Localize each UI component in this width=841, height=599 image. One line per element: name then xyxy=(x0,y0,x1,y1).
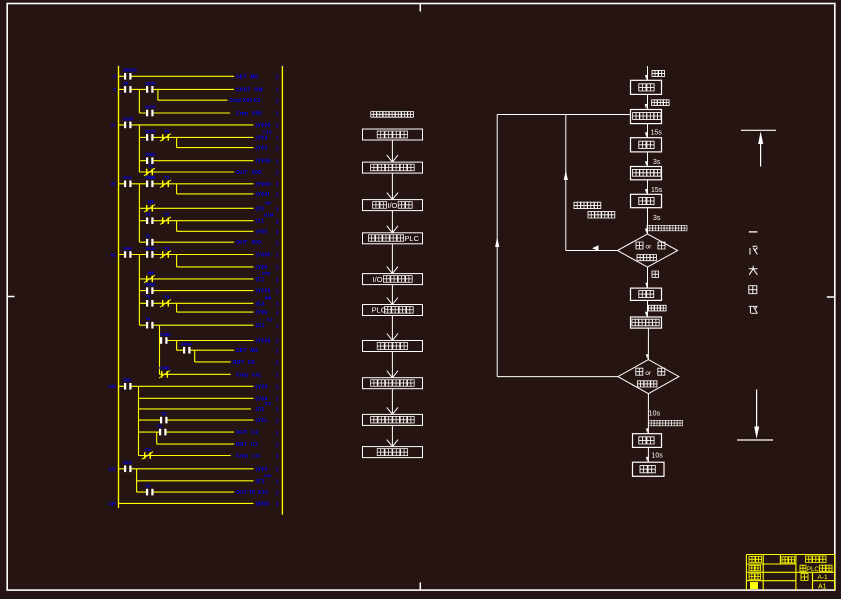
svg-text:): ) xyxy=(276,240,278,246)
wire to rinse xyxy=(647,300,649,317)
ladder right power rail xyxy=(281,66,283,515)
svg-text:(Y1: (Y1 xyxy=(256,219,265,225)
contact X041 xyxy=(148,253,152,256)
label forward reverse wash xyxy=(574,202,601,208)
flow arrow into process PLC program design xyxy=(391,285,393,305)
svg-text:(Y0L: (Y0L xyxy=(256,418,268,424)
flow arrow into process select PLC xyxy=(391,211,393,233)
svg-text:): ) xyxy=(276,397,278,403)
svg-text:S24: S24 xyxy=(123,460,132,465)
branch wire Y06 xyxy=(176,303,178,312)
contact M8002 xyxy=(126,75,130,78)
process requirement analysis xyxy=(363,162,423,173)
svg-text:S65: S65 xyxy=(123,378,132,383)
sub-rung wire T1 xyxy=(139,171,234,173)
ladder left power rail xyxy=(118,66,120,508)
svg-text:3s: 3s xyxy=(653,215,661,222)
sub-rung wire C3 xyxy=(137,480,254,482)
svg-text:(Y05: (Y05 xyxy=(256,229,268,235)
decision 1 three washes done xyxy=(617,234,677,267)
svg-text:(C4: (C4 xyxy=(256,301,265,307)
sub branch rail xyxy=(159,325,161,374)
svg-text:): ) xyxy=(276,277,278,283)
sub-rung wire X083 xyxy=(139,160,253,162)
rung 7 branch rail xyxy=(136,469,138,492)
svg-text:15s: 15s xyxy=(651,130,663,137)
process stop machine xyxy=(633,462,665,476)
contact T3 xyxy=(148,219,152,222)
svg-text:3s: 3s xyxy=(653,159,661,166)
svg-text:SET M0: SET M0 xyxy=(236,74,258,80)
process wash reverse xyxy=(631,167,662,180)
process select PLC xyxy=(363,233,423,244)
wire decision1 to drain xyxy=(647,267,649,288)
contact X085 xyxy=(148,182,152,185)
sub-rung wire X002 xyxy=(139,290,253,292)
svg-text:RST C0: RST C0 xyxy=(233,360,255,366)
svg-text:): ) xyxy=(276,407,278,413)
svg-text:): ) xyxy=(276,123,278,129)
svg-text:105: 105 xyxy=(108,384,116,389)
branch wire Y06 xyxy=(176,255,178,267)
label not three times xyxy=(588,212,615,218)
rung 2 branch wire b xyxy=(138,89,140,113)
svg-text:C080: C080 xyxy=(160,332,171,337)
svg-text:17: 17 xyxy=(111,123,117,128)
svg-text:): ) xyxy=(276,339,278,345)
svg-text:SA1: SA1 xyxy=(123,175,132,180)
svg-text:C2: C2 xyxy=(145,447,151,452)
svg-text:10s: 10s xyxy=(652,453,664,460)
rung 8 wire END xyxy=(119,502,254,504)
contact X250 xyxy=(126,123,130,126)
rung 1 wire xyxy=(119,75,235,77)
rung 4 branch rail xyxy=(138,184,140,242)
svg-text:X0: X0 xyxy=(123,81,129,86)
contact M0 yellow xyxy=(146,205,147,212)
svg-text:(Y30: (Y30 xyxy=(256,384,268,390)
dimension top tick xyxy=(741,129,776,131)
timer contact T1 xyxy=(146,169,147,176)
svg-text:or: or xyxy=(645,370,652,377)
contact X0 xyxy=(126,88,130,91)
decision 2 rinse three times xyxy=(618,360,679,394)
branch wire RST C0 xyxy=(194,350,196,362)
label low water level xyxy=(649,305,667,311)
svg-text:): ) xyxy=(276,430,278,436)
svg-text:Cmp X00 K2: Cmp X00 K2 xyxy=(230,98,261,104)
sub-rung wire C080 yellow xyxy=(160,373,231,375)
sub-rung wire C1 xyxy=(139,431,235,433)
svg-text:): ) xyxy=(276,182,278,188)
loop wire decision2 big cycle xyxy=(497,376,618,378)
svg-text:X070: X070 xyxy=(145,104,156,109)
branch wire RST C1 xyxy=(156,432,158,444)
sub-rung wire M0 xyxy=(139,278,253,280)
rung 3 wire xyxy=(119,124,254,126)
wire to wash reverse xyxy=(647,152,649,167)
rung 6 branch rail xyxy=(138,386,140,455)
sub-rung wire Y06 xyxy=(139,397,254,399)
contact X000 xyxy=(148,88,152,91)
timer contact T2 xyxy=(162,217,163,224)
svg-text:(Y005: (Y005 xyxy=(256,289,271,295)
process IO address assign xyxy=(363,274,423,285)
svg-text:(C1: (C1 xyxy=(256,277,265,283)
svg-text:T6: T6 xyxy=(145,484,151,489)
svg-text:25: 25 xyxy=(111,182,117,187)
svg-text:OUT T6 K10: OUT T6 K10 xyxy=(236,490,268,496)
contact T6 xyxy=(148,491,152,494)
contact X002 xyxy=(148,289,152,292)
flow arrow into process requirement analysis xyxy=(391,140,393,162)
label full water level xyxy=(652,100,670,106)
title block cell check xyxy=(749,565,761,571)
timer contact T1 xyxy=(162,181,163,188)
title block cell draw xyxy=(749,556,762,562)
sub-rung wire T5 xyxy=(139,419,254,421)
sub-rung wire T3 T4 xyxy=(139,302,253,304)
svg-text:X070: X070 xyxy=(145,129,156,134)
wire decision2 to alarm xyxy=(647,394,649,434)
dimension bottom arrow xyxy=(756,390,758,428)
contact S24 xyxy=(126,467,130,470)
contact SA1 xyxy=(126,182,130,185)
svg-text:T1: T1 xyxy=(164,175,170,180)
right centering mark xyxy=(827,296,835,298)
contact X083 xyxy=(148,159,152,162)
title text PLC control xyxy=(800,565,806,571)
svg-text:): ) xyxy=(276,192,278,198)
svg-text:): ) xyxy=(276,310,278,316)
wire start to fill water xyxy=(647,66,649,80)
sub-rung wire M0 xyxy=(139,207,253,209)
svg-text:): ) xyxy=(276,136,278,142)
svg-text:): ) xyxy=(276,418,278,424)
branch wire Y05 xyxy=(176,137,178,147)
label one big cycle vertical xyxy=(749,231,758,233)
process wash forward xyxy=(631,110,662,124)
svg-text:I/O: I/O xyxy=(373,275,383,284)
svg-text:C1: C1 xyxy=(157,424,163,429)
svg-text:X085: X085 xyxy=(145,175,156,180)
svg-text:or: or xyxy=(646,244,653,251)
title block cell trace xyxy=(782,557,795,563)
svg-text:X083: X083 xyxy=(145,152,156,157)
svg-text:CPST RM: CPST RM xyxy=(236,87,263,93)
svg-text:C00: C00 xyxy=(262,271,271,276)
svg-text:A-1: A-1 xyxy=(818,574,829,581)
timer contact T0 xyxy=(162,134,163,141)
label wash cycle reaches three xyxy=(647,225,687,231)
branch wire to X064 xyxy=(176,341,178,351)
svg-text:Cmp xxL: Cmp xxL xyxy=(236,372,262,378)
contact C2 yellow xyxy=(144,452,145,459)
svg-text:T5: T5 xyxy=(161,412,167,417)
svg-text:SA0: SA0 xyxy=(123,246,132,251)
svg-text:(Y04l: (Y04l xyxy=(256,192,270,198)
svg-text:(C3: (C3 xyxy=(256,479,265,485)
arrow left on decision1 branch xyxy=(592,245,599,251)
svg-text:T3: T3 xyxy=(145,295,151,300)
rung 3 branch rail xyxy=(138,125,140,172)
svg-text:121: 121 xyxy=(108,467,116,472)
svg-text:T3: T3 xyxy=(164,246,170,251)
svg-text:OUT X00: OUT X00 xyxy=(236,240,261,246)
svg-text:): ) xyxy=(276,373,278,379)
svg-text:(Y005: (Y005 xyxy=(256,339,271,345)
svg-text:(C0: (C0 xyxy=(256,206,265,212)
rung 2 branch wire a xyxy=(157,89,159,100)
wire to pause 2 xyxy=(647,180,649,195)
title block grid xyxy=(746,554,834,556)
rung 5 branch rail xyxy=(138,255,140,326)
sub-rung wire T0 xyxy=(139,136,253,138)
svg-text:): ) xyxy=(276,348,278,354)
timer contact T3 xyxy=(162,251,163,258)
svg-text:Cmp X00: Cmp X00 xyxy=(236,111,262,117)
svg-text:M0: M0 xyxy=(148,200,155,205)
svg-text:): ) xyxy=(276,75,278,81)
svg-text:10s: 10s xyxy=(649,409,661,418)
svg-text:K3: K3 xyxy=(265,401,271,406)
svg-text:SET M5: SET M5 xyxy=(236,348,258,354)
svg-text:): ) xyxy=(276,170,278,176)
process simulation debug xyxy=(363,341,423,352)
contact T5 xyxy=(162,419,166,422)
svg-text:(Y005: (Y005 xyxy=(256,159,271,165)
svg-text:M0: M0 xyxy=(148,270,155,275)
svg-text:K1M: K1M xyxy=(264,213,274,218)
svg-text:Cmp cxl: Cmp cxl xyxy=(236,454,260,460)
svg-text:(Y05: (Y05 xyxy=(256,146,268,152)
svg-text:140: 140 xyxy=(108,501,116,506)
svg-text:PLC: PLC xyxy=(807,567,819,573)
svg-text:OUT C2: OUT C2 xyxy=(236,430,259,436)
svg-text:OUT X00: OUT X00 xyxy=(236,170,261,176)
process pause 1 xyxy=(631,138,662,152)
wire to pause 1 xyxy=(647,124,649,138)
svg-text:): ) xyxy=(276,98,278,104)
title block cell scale xyxy=(801,574,808,581)
bottom centering mark xyxy=(419,583,421,590)
process pause 2 xyxy=(631,194,662,207)
branch wire Y04l xyxy=(176,184,178,194)
arrow up outer loop xyxy=(495,237,499,247)
flow arrow into process field install debug xyxy=(391,352,393,378)
contact T4 xyxy=(148,324,152,327)
rung 4 wire xyxy=(119,183,254,185)
sub-rung wire C2 yellow xyxy=(139,455,231,457)
rung 2 wire xyxy=(119,88,235,90)
svg-text:): ) xyxy=(276,265,278,271)
sub-rung wire T2 xyxy=(139,241,234,243)
svg-text:I/O: I/O xyxy=(387,201,397,210)
sub-rung wire C2 xyxy=(139,408,252,410)
dimension top arrow xyxy=(758,131,763,144)
svg-text:): ) xyxy=(276,385,278,391)
svg-text:(Y003: (Y003 xyxy=(256,182,271,188)
svg-text:): ) xyxy=(276,442,278,448)
svg-text:(Y000: (Y000 xyxy=(256,253,271,259)
flow arrow into process design end xyxy=(391,425,393,446)
flow arrow into process control IO assign xyxy=(391,173,393,200)
svg-text:): ) xyxy=(276,207,278,213)
svg-text:): ) xyxy=(276,360,278,366)
rung 6 wire xyxy=(119,385,254,387)
left centering mark xyxy=(7,296,14,298)
contact C080 yellow xyxy=(161,371,162,378)
title text washing machine xyxy=(806,556,827,563)
contact T3 xyxy=(148,302,152,305)
process start design xyxy=(363,129,423,140)
svg-text:(END: (END xyxy=(256,501,270,507)
svg-text:): ) xyxy=(276,323,278,329)
svg-text:): ) xyxy=(276,302,278,308)
sub-rung wire C080 xyxy=(160,340,254,342)
process fill water xyxy=(631,80,662,94)
svg-text:): ) xyxy=(276,230,278,236)
sub-rung wire T6 xyxy=(137,491,234,493)
title block cell approve xyxy=(750,582,758,589)
contact X070 xyxy=(148,136,152,139)
label yes xyxy=(652,271,659,278)
svg-text:): ) xyxy=(276,454,278,460)
wire to wash forward xyxy=(647,94,649,109)
svg-text:X002: X002 xyxy=(145,282,156,287)
rung 5 wire xyxy=(119,254,254,256)
svg-text:cxx: cxx xyxy=(264,473,272,478)
flow arrow into process arrange documents xyxy=(391,389,393,415)
svg-text:): ) xyxy=(276,467,278,473)
wire rinse to decision 2 xyxy=(647,328,649,360)
svg-text:): ) xyxy=(276,289,278,295)
svg-text:T4: T4 xyxy=(164,295,170,300)
contact X064 xyxy=(185,349,189,352)
timer contact T4 xyxy=(162,300,163,307)
process drain water xyxy=(631,288,662,300)
svg-text:): ) xyxy=(276,159,278,165)
svg-text:X000: X000 xyxy=(145,81,156,86)
svg-text:C080: C080 xyxy=(159,366,170,371)
svg-text:(C1: (C1 xyxy=(256,323,265,329)
svg-text:M8002: M8002 xyxy=(123,68,137,73)
flowchart title design steps xyxy=(371,112,414,118)
branch wire Y05 xyxy=(176,221,178,232)
svg-text:): ) xyxy=(276,219,278,225)
svg-text:): ) xyxy=(276,479,278,485)
svg-text:(C2: (C2 xyxy=(256,407,265,413)
svg-text:X250: X250 xyxy=(123,116,134,121)
process clear water rinse xyxy=(631,317,662,328)
label big cycle three times xyxy=(649,420,683,426)
title block cell process xyxy=(749,574,761,580)
contact T2 xyxy=(148,241,152,244)
svg-text:K9: K9 xyxy=(265,200,271,205)
svg-text:K2: K2 xyxy=(267,317,273,322)
svg-text:(Y06: (Y06 xyxy=(256,310,268,316)
svg-text:T2: T2 xyxy=(145,234,151,239)
svg-text:T2: T2 xyxy=(164,212,170,217)
wire alarm to stop xyxy=(647,447,649,462)
contact C1 xyxy=(161,431,165,434)
svg-text:): ) xyxy=(276,502,278,508)
svg-text:C10: C10 xyxy=(263,129,272,134)
svg-text:): ) xyxy=(276,253,278,259)
process field install debug xyxy=(363,378,423,389)
contact SA0 xyxy=(126,253,130,256)
svg-text:): ) xyxy=(276,490,278,496)
svg-text:T3: T3 xyxy=(145,212,151,217)
process PLC program design xyxy=(363,305,423,316)
start label qi dong xyxy=(652,70,665,76)
contact M0 yellow xyxy=(146,276,147,283)
arrow up inner loop xyxy=(564,170,568,180)
svg-text:): ) xyxy=(276,88,278,94)
svg-text:): ) xyxy=(276,146,278,152)
svg-text:T4: T4 xyxy=(145,317,151,322)
process control IO assign xyxy=(363,200,423,211)
svg-text:62: 62 xyxy=(111,252,117,257)
svg-text:PLC: PLC xyxy=(404,234,419,243)
svg-text:M9: M9 xyxy=(265,295,272,300)
flow arrow into process IO address assign xyxy=(391,244,393,274)
top centering mark xyxy=(419,4,421,12)
svg-text:X041: X041 xyxy=(145,246,156,251)
svg-text:(Y04: (Y04 xyxy=(256,135,268,141)
flow arrow into process simulation debug xyxy=(391,316,393,341)
wire to decision 1 xyxy=(647,208,649,234)
contact C080 xyxy=(162,339,166,342)
svg-text:A1: A1 xyxy=(818,584,827,591)
loop wire decision1 not three times xyxy=(566,250,618,252)
svg-text:T1: T1 xyxy=(148,163,154,168)
process alarm xyxy=(633,434,662,448)
rung 7 wire xyxy=(119,468,254,470)
dimension bottom tick xyxy=(737,439,773,441)
contact X070 xyxy=(148,111,152,114)
process design end xyxy=(363,447,423,458)
svg-text:RST C1: RST C1 xyxy=(236,442,258,448)
svg-text:(Y000: (Y000 xyxy=(256,123,271,129)
sub-rung wire T4 xyxy=(139,324,253,326)
svg-text:T0: T0 xyxy=(164,129,170,134)
svg-text:15s: 15s xyxy=(651,187,663,194)
process arrange documents xyxy=(363,414,423,425)
contact S65 xyxy=(126,385,130,388)
svg-text:): ) xyxy=(276,111,278,117)
sub-rung wire T3 T2 xyxy=(139,220,253,222)
svg-text:X064: X064 xyxy=(181,342,192,347)
